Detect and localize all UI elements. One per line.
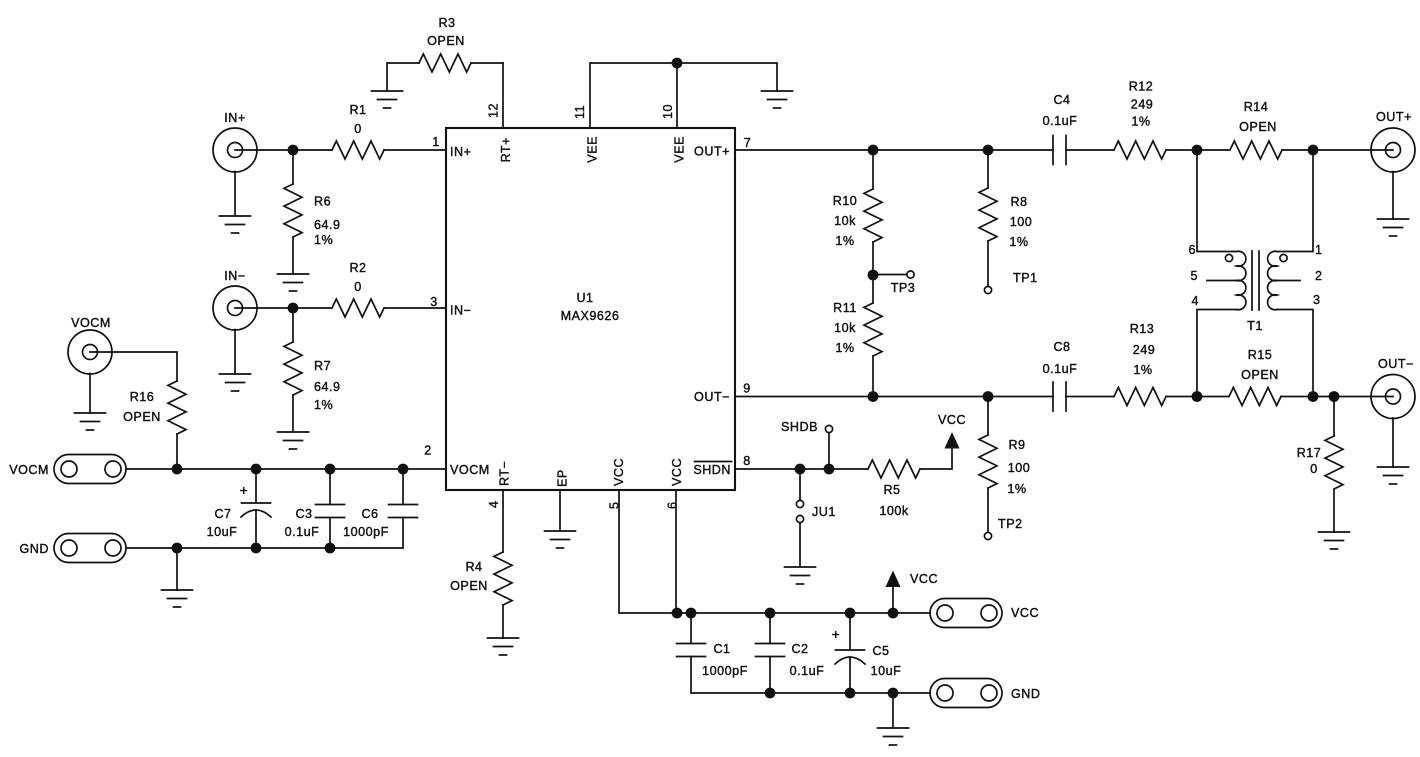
- ground (R17): [1319, 532, 1350, 549]
- svg-text:5: 5: [1190, 269, 1198, 283]
- svg-text:1%: 1%: [1133, 363, 1152, 377]
- pad GND (bottom): [930, 679, 1002, 708]
- svg-text:SHDB: SHDB: [781, 420, 818, 434]
- svg-text:64.9: 64.9: [314, 380, 341, 394]
- svg-text:OUT−: OUT−: [694, 390, 730, 404]
- wire pin 6 to VCC rail: [675, 490, 677, 613]
- svg-text:TP3: TP3: [891, 281, 916, 295]
- svg-text:RT+: RT+: [499, 137, 513, 162]
- ground (VEE): [762, 91, 793, 108]
- resistor R16: [168, 381, 186, 469]
- svg-text:3: 3: [1313, 293, 1321, 307]
- capacitor C5 (polarized): [835, 613, 865, 693]
- svg-text:GND: GND: [20, 542, 50, 556]
- svg-text:GND: GND: [1011, 687, 1041, 701]
- svg-text:TP1: TP1: [1013, 271, 1038, 285]
- label R4 value: [450, 560, 488, 593]
- resistor R12: [1114, 141, 1166, 159]
- node OUT+/R10: [868, 145, 879, 156]
- label R11 value: [833, 301, 857, 355]
- connector IN-: [213, 286, 257, 330]
- node C1 top: [686, 608, 697, 619]
- svg-text:OPEN: OPEN: [1239, 120, 1277, 134]
- wire pin 5 to VCC rail: [619, 490, 677, 613]
- label U1: [561, 291, 620, 323]
- svg-text:6: 6: [1188, 243, 1196, 257]
- ground (R3): [372, 91, 403, 108]
- svg-text:+: +: [240, 482, 249, 498]
- wire R5 to VCC arrow: [920, 449, 952, 470]
- wire T1 pin 1: [1277, 150, 1313, 252]
- node OUT-/T1 pin4: [1192, 391, 1203, 402]
- label R2: [349, 261, 366, 294]
- wire pin 7 OUT+ rail: [735, 149, 1053, 151]
- connector OUT-: [1371, 375, 1415, 419]
- svg-text:2: 2: [1315, 269, 1323, 283]
- pad VCC: [930, 599, 1002, 628]
- svg-text:C1: C1: [713, 642, 730, 656]
- ground (R4): [488, 638, 519, 655]
- label C5 value: [871, 644, 902, 678]
- svg-text:VCC: VCC: [938, 413, 966, 427]
- wire T1 pin 2 stub: [1277, 280, 1300, 282]
- ground (EP): [545, 531, 576, 548]
- svg-text:1%: 1%: [1131, 115, 1150, 129]
- svg-text:9: 9: [743, 382, 751, 396]
- svg-text:1: 1: [1315, 243, 1323, 257]
- resistor R6: [284, 150, 302, 274]
- pad VOCM: [54, 455, 126, 484]
- label R12 value: [1129, 80, 1154, 129]
- node C2 top: [765, 608, 776, 619]
- label R7 value: [314, 359, 341, 412]
- svg-text:T1: T1: [1247, 319, 1263, 333]
- resistor R9: [979, 397, 997, 533]
- wire T1 pin 4: [1197, 310, 1237, 397]
- svg-text:12: 12: [487, 103, 501, 118]
- node VOCM/R16: [172, 464, 183, 475]
- svg-text:R10: R10: [833, 194, 858, 208]
- svg-text:VOCM: VOCM: [450, 463, 490, 477]
- node VEE junction: [672, 58, 683, 69]
- testpoint TP2: [984, 532, 991, 539]
- label C7 value: [207, 507, 238, 539]
- label R9 value: [1007, 438, 1030, 496]
- svg-text:R16: R16: [130, 390, 155, 404]
- resistor R5: [868, 460, 920, 478]
- svg-text:VOCM: VOCM: [71, 316, 111, 330]
- label R8 value: [1009, 195, 1032, 249]
- svg-text:OUT+: OUT+: [1376, 110, 1412, 124]
- node VCC arrow: [888, 608, 899, 619]
- svg-text:VCC: VCC: [910, 572, 938, 586]
- resistor R3: [419, 54, 471, 72]
- node OUT+/T1 pin6: [1192, 145, 1203, 156]
- svg-text:249: 249: [1133, 343, 1156, 357]
- svg-text:0.1uF: 0.1uF: [285, 525, 320, 539]
- wire VEE net (pins 11,10 to ground): [590, 63, 777, 128]
- wire R15 to OUT- connector: [1281, 396, 1372, 398]
- svg-text:R4: R4: [465, 560, 482, 574]
- wire IN- to R2: [257, 307, 333, 309]
- svg-text:SHDN: SHDN: [693, 463, 731, 477]
- svg-text:10uF: 10uF: [871, 664, 902, 678]
- wire OUT+ connector to ground: [1392, 172, 1394, 220]
- svg-text:2: 2: [424, 444, 432, 458]
- ground (OUT+ connector): [1378, 219, 1409, 236]
- svg-text:R17: R17: [1297, 446, 1322, 460]
- node OUT-/T1 pin3: [1308, 391, 1319, 402]
- connector IN+: [213, 128, 257, 172]
- svg-text:OPEN: OPEN: [450, 579, 488, 593]
- capacitor C7 (polarized): [241, 469, 271, 548]
- svg-text:0: 0: [354, 122, 362, 136]
- label C1 value: [702, 642, 748, 678]
- capacitor C2: [756, 613, 785, 693]
- svg-text:R3: R3: [438, 16, 455, 30]
- node OUT+/T1 pin1: [1308, 145, 1319, 156]
- testpoint TP1: [984, 286, 991, 293]
- svg-text:VEE: VEE: [586, 136, 600, 163]
- wire T1 pin 6: [1197, 150, 1237, 252]
- wire bottom ground stem: [892, 693, 894, 728]
- wire R2 to pin 3: [384, 307, 446, 309]
- svg-text:0.1uF: 0.1uF: [1043, 114, 1078, 128]
- resistor R1: [332, 141, 384, 159]
- svg-text:VCC: VCC: [670, 458, 684, 486]
- label C6 value: [343, 507, 389, 539]
- resistor R7: [284, 308, 302, 432]
- svg-text:VCC: VCC: [612, 458, 626, 486]
- svg-text:100k: 100k: [879, 504, 909, 518]
- svg-text:1%: 1%: [835, 341, 854, 355]
- svg-text:RT−: RT−: [498, 461, 512, 486]
- node VOCM/C6: [398, 464, 409, 475]
- svg-text:4: 4: [1191, 294, 1199, 308]
- label R3 value: [427, 16, 465, 48]
- label C2 value: [790, 642, 825, 678]
- svg-text:1%: 1%: [835, 234, 854, 248]
- svg-text:OPEN: OPEN: [427, 34, 465, 48]
- svg-text:C6: C6: [361, 507, 378, 521]
- op-amp U1 MAX9626 body: [446, 128, 735, 490]
- svg-text:100: 100: [1008, 461, 1031, 475]
- node SHDN/SHDB: [824, 464, 835, 475]
- svg-text:OPEN: OPEN: [1241, 368, 1279, 382]
- resistor R2: [332, 299, 384, 317]
- label R14 value: [1239, 100, 1277, 134]
- label R6 value: [314, 195, 341, 248]
- label R1: [349, 103, 366, 136]
- ground (R7): [278, 432, 309, 449]
- connector VOCM: [68, 330, 112, 374]
- svg-text:VEE: VEE: [673, 136, 687, 163]
- svg-text:1000pF: 1000pF: [702, 664, 748, 678]
- svg-text:R9: R9: [1008, 438, 1025, 452]
- svg-text:C2: C2: [791, 642, 808, 656]
- svg-text:U1: U1: [576, 291, 593, 305]
- svg-text:IN−: IN−: [224, 269, 245, 283]
- node OUT-/R9: [983, 391, 994, 402]
- ground (bottom GND rail): [878, 728, 909, 745]
- ground (JU1): [785, 567, 816, 584]
- testpoint SHDB: [825, 425, 832, 469]
- wire ground stem: [176, 548, 178, 590]
- wire GND rail (left): [126, 547, 403, 549]
- svg-text:1%: 1%: [1009, 235, 1028, 249]
- svg-text:R1: R1: [349, 103, 366, 117]
- svg-text:64.9: 64.9: [314, 218, 341, 232]
- node GND/ground stem bottom: [888, 688, 899, 699]
- node GND/C3: [325, 543, 336, 554]
- svg-text:4: 4: [487, 500, 501, 508]
- svg-text:C4: C4: [1053, 93, 1070, 107]
- svg-text:IN+: IN+: [224, 111, 245, 125]
- connector OUT+: [1371, 128, 1415, 172]
- wire pin 8 to R5: [735, 468, 868, 470]
- node VOCM/C7: [251, 464, 262, 475]
- ground (IN+ connector): [220, 216, 251, 233]
- wire OUT- connector to ground: [1392, 418, 1394, 467]
- ground (R6): [278, 274, 309, 291]
- label R10 value: [833, 194, 858, 248]
- svg-text:R12: R12: [1129, 80, 1154, 94]
- wire pin 9 OUT- rail: [735, 396, 1053, 398]
- svg-text:8: 8: [743, 454, 751, 468]
- resistor R15: [1229, 388, 1281, 406]
- svg-text:1%: 1%: [1007, 482, 1026, 496]
- svg-text:C5: C5: [872, 644, 889, 658]
- wire R3 net (pin 12 to ground): [387, 63, 419, 91]
- svg-text:0: 0: [1310, 462, 1318, 476]
- wire IN+ to R1: [257, 149, 333, 151]
- label R5 value: [879, 483, 909, 518]
- wire C4 to R12: [1066, 149, 1114, 151]
- pad GND (left): [54, 534, 126, 563]
- capacitor C6: [389, 469, 418, 548]
- svg-text:7: 7: [744, 136, 752, 150]
- svg-text:IN−: IN−: [450, 304, 471, 318]
- wire R14 to OUT+ connector: [1282, 149, 1372, 151]
- svg-text:6: 6: [666, 501, 680, 509]
- wire VCC rail: [677, 612, 930, 614]
- wire VOCM rail to pin 2: [126, 468, 446, 470]
- wire T1 pin 3: [1277, 310, 1313, 397]
- transformer T1 primary winding: [1237, 251, 1246, 310]
- svg-text:R13: R13: [1130, 322, 1155, 336]
- node GND/ground stem: [172, 543, 183, 554]
- capacitor C8: [1053, 382, 1066, 411]
- wire C8 to R13: [1066, 396, 1114, 398]
- svg-text:MAX9626: MAX9626: [561, 309, 620, 323]
- ground (left GND rail): [162, 590, 193, 607]
- wire R1 to pin 1: [384, 149, 446, 151]
- svg-text:TP2: TP2: [998, 517, 1023, 531]
- transformer T1 polarity dots: [1225, 254, 1287, 261]
- svg-text:1000pF: 1000pF: [343, 525, 389, 539]
- svg-text:EP: EP: [556, 469, 570, 487]
- wire IN+ connector to ground: [234, 172, 236, 217]
- ground (IN- connector): [220, 374, 251, 391]
- testpoint TP3: [873, 271, 914, 278]
- node OUT+/R8: [983, 145, 994, 156]
- svg-text:R11: R11: [833, 301, 857, 315]
- svg-text:JU1: JU1: [812, 505, 836, 519]
- jumper JU1: [796, 469, 803, 567]
- wire R12 to node: [1166, 149, 1229, 151]
- label R13 value: [1130, 322, 1156, 377]
- wire T1 pin 5 stub: [1207, 280, 1237, 282]
- node TP3: [868, 270, 879, 281]
- svg-text:OUT−: OUT−: [1378, 357, 1414, 371]
- resistor R14: [1230, 141, 1282, 159]
- svg-text:R2: R2: [349, 261, 366, 275]
- label R17 value: [1297, 446, 1322, 476]
- svg-text:OPEN: OPEN: [123, 410, 161, 424]
- node GND/C7: [251, 543, 262, 554]
- svg-text:R5: R5: [883, 483, 900, 497]
- svg-text:R14: R14: [1244, 100, 1269, 114]
- wire GND rail (bottom): [691, 657, 930, 694]
- label R16 value: [123, 390, 161, 424]
- svg-text:R7: R7: [314, 359, 331, 373]
- svg-text:10k: 10k: [834, 214, 856, 228]
- svg-text:1: 1: [432, 135, 440, 149]
- node C2 bottom: [765, 688, 776, 699]
- svg-text:R15: R15: [1248, 348, 1273, 362]
- svg-text:3: 3: [430, 295, 438, 309]
- svg-text:0.1uF: 0.1uF: [790, 664, 825, 678]
- svg-text:10: 10: [661, 104, 675, 119]
- svg-text:100: 100: [1010, 215, 1033, 229]
- label R15 value: [1241, 348, 1279, 382]
- capacitor C3: [316, 469, 345, 548]
- transformer T1 core: [1252, 251, 1259, 310]
- node IN- junction: [288, 303, 299, 314]
- ground (OUT- connector): [1378, 467, 1409, 484]
- svg-text:VCC: VCC: [1011, 606, 1039, 620]
- power VCC arrow (rail): [886, 571, 901, 614]
- label C4 value: [1043, 93, 1078, 128]
- svg-text:IN+: IN+: [450, 145, 471, 159]
- svg-text:C7: C7: [214, 507, 231, 521]
- capacitor C1: [677, 613, 706, 657]
- capacitor C4: [1053, 136, 1066, 165]
- svg-text:0: 0: [354, 280, 362, 294]
- resistor R10: [864, 150, 882, 275]
- node SHDN/JU1: [795, 464, 806, 475]
- label C3 value: [285, 507, 320, 539]
- wire EP to ground: [559, 490, 561, 531]
- ground (VOCM connector): [75, 413, 106, 430]
- svg-text:1%: 1%: [314, 398, 333, 412]
- label C8 value: [1043, 340, 1078, 376]
- wire VOCM connector to R16: [112, 352, 178, 381]
- wire IN- connector to ground: [234, 330, 236, 375]
- svg-text:C3: C3: [295, 507, 312, 521]
- resistor R13: [1114, 388, 1166, 406]
- svg-text:R6: R6: [314, 195, 331, 209]
- svg-text:249: 249: [1131, 98, 1154, 112]
- pin name SHDN (pin 8) with overline: [693, 462, 731, 478]
- resistor R11: [864, 275, 882, 396]
- node C5 bottom: [845, 688, 856, 699]
- svg-text:+: +: [832, 626, 841, 642]
- svg-text:VOCM: VOCM: [9, 463, 49, 477]
- node OUT-/R11: [868, 391, 879, 402]
- svg-text:R8: R8: [1010, 195, 1027, 209]
- svg-text:10uF: 10uF: [207, 525, 238, 539]
- node IN+ junction: [288, 145, 299, 156]
- wire VOCM connector to ground: [89, 374, 91, 414]
- node pin6/VCC rail: [672, 608, 683, 619]
- node C5 top: [845, 608, 856, 619]
- node OUT-/R17: [1329, 391, 1340, 402]
- resistor R8: [979, 150, 997, 287]
- power VCC arrow (SHDN): [945, 432, 960, 449]
- svg-text:10k: 10k: [834, 321, 856, 335]
- svg-text:11: 11: [573, 105, 587, 119]
- transformer T1 secondary winding: [1268, 251, 1277, 310]
- svg-text:OUT+: OUT+: [694, 145, 730, 159]
- svg-text:C8: C8: [1053, 340, 1070, 354]
- wire pin 4 to R4: [502, 490, 504, 552]
- wire R13 to node: [1166, 396, 1228, 398]
- node VOCM/C3: [325, 464, 336, 475]
- svg-text:0.1uF: 0.1uF: [1043, 362, 1078, 376]
- resistor R4: [494, 552, 512, 638]
- svg-text:1%: 1%: [314, 233, 333, 247]
- resistor R17: [1325, 397, 1343, 533]
